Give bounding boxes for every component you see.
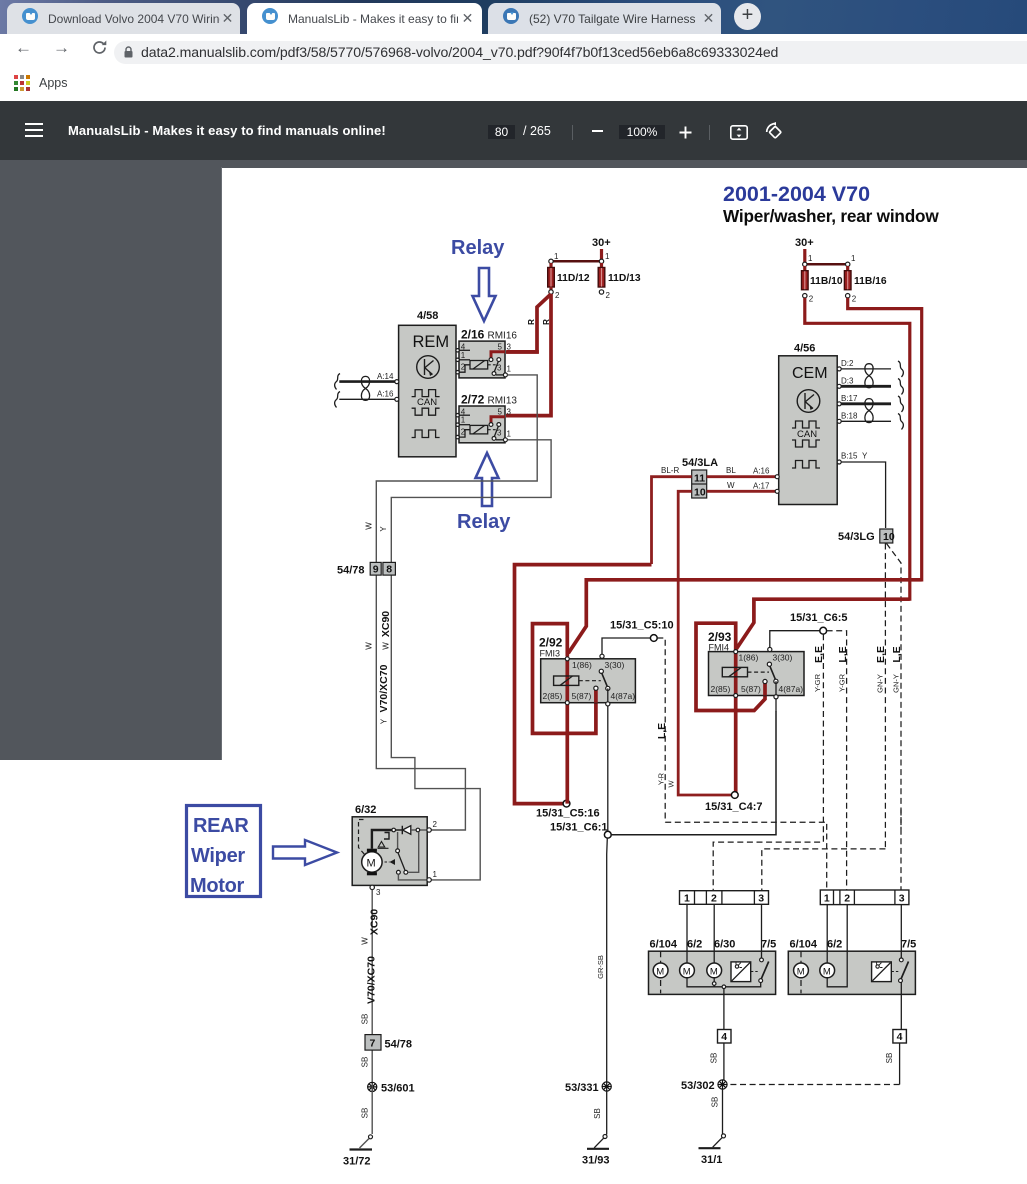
svg-text:54/78: 54/78	[385, 1039, 413, 1051]
dashed E,E wire to left strip pin3	[762, 849, 886, 890]
wire 30+ stub	[803, 249, 806, 262]
2/93 pin 5(87) contact	[763, 679, 767, 683]
dashed wire C6:5 right branch to pin2 (right strip)	[827, 631, 847, 890]
address bar row	[0, 34, 1027, 67]
svg-text:SB: SB	[885, 1053, 894, 1064]
wire switch to connector 4 (right)	[900, 983, 902, 1030]
svg-text:B:15: B:15	[841, 452, 858, 461]
svg-text:GN-Y: GN-Y	[876, 674, 885, 693]
svg-text:L,E: L,E	[656, 723, 668, 739]
2/93 dashed link	[748, 671, 770, 673]
svg-text:Y-R: Y-R	[657, 772, 666, 785]
wire GR-SB: C6:1 down to 53/331	[606, 838, 609, 1084]
svg-text:D:2: D:2	[841, 359, 854, 368]
svg-text:GR-SB: GR-SB	[596, 955, 605, 979]
svg-text:3: 3	[758, 893, 764, 905]
svg-text:6/104: 6/104	[650, 939, 678, 951]
svg-text:1: 1	[461, 351, 466, 360]
svg-text:5(87): 5(87)	[741, 684, 761, 694]
2/93 coil	[722, 667, 747, 676]
pin 2 of 11B/10	[803, 294, 807, 298]
motor M 6/2 (right)	[820, 963, 835, 978]
pin 1 of 11B/10	[803, 262, 807, 266]
dashed C5:10 wire to right strip pin1	[665, 822, 827, 890]
svg-text:31/1: 31/1	[701, 1154, 722, 1166]
svg-text:1: 1	[605, 252, 610, 261]
svg-text:Motor: Motor	[190, 875, 245, 897]
RMI13 coil	[459, 424, 470, 426]
RMI13 switch	[491, 417, 505, 423]
svg-text:2: 2	[809, 295, 814, 304]
svg-text:B:17: B:17	[841, 394, 858, 403]
2/92 pin 1(86)	[565, 657, 569, 661]
switch 7/5 (left)	[761, 904, 763, 958]
svg-text:1: 1	[433, 870, 438, 879]
connector strip 1 2 3 (right)	[820, 890, 909, 905]
svg-text:30+: 30+	[795, 237, 814, 249]
svg-text:SB: SB	[361, 1108, 370, 1119]
svg-text:30+: 30+	[592, 237, 611, 249]
RMI13 pin4 lead	[459, 414, 470, 416]
fuse 11B/10	[803, 266, 806, 271]
svg-text:6/2: 6/2	[687, 939, 702, 951]
junction 15/31_C6:5	[820, 627, 827, 634]
svg-text:10: 10	[694, 487, 706, 499]
svg-text:2(85): 2(85)	[711, 684, 731, 694]
2/93 red inside box	[736, 652, 765, 696]
wire C6:1 to 2/93 4(87a)	[611, 711, 776, 835]
annotation arrow down	[473, 268, 496, 321]
6/32 dashed park lead	[359, 820, 366, 856]
svg-text:BL-R: BL-R	[661, 466, 679, 475]
pin 1 of 6/32	[427, 878, 431, 882]
svg-text:Y-GR: Y-GR	[838, 673, 847, 692]
grey block left	[649, 951, 776, 994]
svg-text:V70/XC70: V70/XC70	[378, 664, 390, 712]
svg-text:11D/13: 11D/13	[608, 273, 641, 284]
svg-text:11D/12: 11D/12	[557, 273, 590, 284]
svg-text:M: M	[823, 966, 831, 977]
svg-text:1(86): 1(86)	[572, 660, 592, 670]
svg-text:A:17: A:17	[753, 482, 770, 491]
2/92 coil	[554, 676, 579, 685]
wire fuse 11D/12 to RMI16 pin3	[507, 350, 537, 352]
svg-text:M: M	[797, 966, 805, 977]
svg-text:3: 3	[497, 364, 502, 373]
svg-text:BL: BL	[726, 466, 736, 475]
svg-text:9: 9	[373, 564, 379, 576]
wire 3(30) to 15/31_C5:10	[602, 638, 651, 654]
new tab button	[734, 3, 761, 30]
RMI13 out 1 lead	[496, 439, 505, 441]
dashed lead below 54/3LG	[887, 544, 902, 830]
svg-text:W: W	[727, 481, 735, 490]
dashed lead through motor 6/104 (right)	[800, 951, 802, 993]
svg-text:3: 3	[497, 428, 502, 437]
svg-text:6/32: 6/32	[355, 804, 376, 816]
annotation arrow up	[476, 453, 499, 506]
2/93 pin 2(85)	[734, 694, 738, 698]
tab 1 inactive	[7, 3, 240, 34]
washer pump symbol 7/5 (left)	[731, 962, 751, 982]
motor M 6/30	[707, 963, 722, 978]
wire pin1 to motor 6/2	[686, 904, 688, 963]
svg-text:53/601: 53/601	[381, 1083, 415, 1095]
svg-text:Wiper/washer, rear window: Wiper/washer, rear window	[723, 206, 939, 226]
pin 2 of 6/32	[427, 828, 431, 832]
wire fuse link 11B/10 to 11B/16 pin1	[805, 263, 848, 266]
wire W pin10 to CEM A:17	[707, 490, 776, 493]
svg-text:R: R	[542, 319, 551, 325]
connector 4 (right)	[893, 1030, 907, 1044]
svg-text:4: 4	[721, 1031, 727, 1043]
svg-text:1: 1	[507, 429, 512, 438]
svg-text:SB: SB	[361, 1014, 370, 1025]
break symbol A:16	[335, 392, 340, 408]
wire 11B/10 pin2 down-right-down (long feed)	[805, 298, 910, 601]
svg-text:4/56: 4/56	[794, 343, 815, 355]
wire 30+ stub	[600, 249, 603, 261]
6/32 park switch	[397, 832, 399, 849]
svg-text:FMI3: FMI3	[540, 649, 561, 659]
dashed lead through motor 6/104	[660, 951, 662, 993]
svg-text:Y: Y	[379, 526, 388, 532]
svg-text:A:16: A:16	[753, 467, 770, 476]
svg-text:4: 4	[897, 1031, 903, 1043]
svg-text:15/31_C6:1: 15/31_C6:1	[550, 822, 608, 834]
svg-text:REAR: REAR	[193, 815, 249, 837]
wire Y B:15 to 54/3LG	[841, 462, 886, 528]
svg-text:REM: REM	[413, 333, 450, 351]
connector strip 1 2 3 (left)	[680, 891, 769, 905]
2/92 pin 4(87a)	[606, 702, 610, 706]
svg-text:31/93: 31/93	[582, 1155, 610, 1167]
svg-text:15/31_C5:16: 15/31_C5:16	[536, 808, 600, 820]
svg-text:R: R	[527, 319, 536, 325]
pin 1 of 11D/13	[599, 259, 603, 263]
RMI16 switch	[491, 352, 505, 358]
svg-text:1: 1	[851, 254, 856, 263]
break symbol D:3	[898, 379, 903, 395]
motor M 6/2	[680, 963, 695, 978]
svg-text:A:16: A:16	[377, 390, 394, 399]
svg-text:5: 5	[498, 407, 503, 416]
2/93 pin 1(86)	[734, 650, 738, 654]
wire pin2 loop to motor 6/2 bottom (right)	[827, 905, 847, 987]
svg-text:GN-Y: GN-Y	[892, 674, 901, 693]
wire 4 to splice 53/302	[723, 1043, 725, 1080]
svg-text:SB: SB	[361, 1057, 370, 1068]
splice 53/601	[368, 1082, 377, 1091]
svg-text:2/92: 2/92	[539, 636, 563, 650]
ground 31/1	[722, 1089, 724, 1134]
svg-text:2001-2004 V70: 2001-2004 V70	[723, 182, 870, 206]
RMI16 dashed link	[488, 364, 496, 366]
twisted pair B:17/B:18	[865, 399, 873, 423]
2/92 pin 5(87) contact	[594, 686, 598, 690]
6/32 motor supply wire	[372, 830, 394, 849]
RMI13 dashed link	[488, 429, 496, 431]
svg-text:W: W	[364, 522, 373, 530]
wire 3(30) to 15/31_C6:5	[770, 631, 820, 648]
svg-text:3(30): 3(30)	[605, 660, 625, 670]
switch 7/5 (right)	[900, 905, 902, 958]
svg-text:1(86): 1(86)	[739, 653, 759, 663]
fuse 11B/16	[846, 266, 849, 271]
svg-text:1: 1	[808, 254, 813, 263]
svg-text:Y: Y	[862, 452, 868, 461]
wire 11B/16 pin2 down-right-down (long feed)	[848, 298, 922, 582]
2/92 dashed link	[579, 680, 601, 682]
svg-text:3: 3	[507, 407, 512, 416]
wire pin2 to motor 6/30	[713, 904, 715, 963]
svg-text:2: 2	[844, 893, 850, 905]
wire R to RMI13 pin3	[506, 294, 551, 416]
break symbol A:14	[335, 374, 340, 390]
svg-text:6/2: 6/2	[827, 939, 842, 951]
2/93 coil wire 1(86) to 15/31_C4:7	[734, 650, 738, 795]
2/93 switch	[768, 647, 772, 651]
6/32 diode to pin2 wire	[411, 829, 427, 831]
2/92 pin 2(85)	[565, 701, 569, 705]
svg-text:Relay: Relay	[451, 237, 505, 259]
svg-text:31/72: 31/72	[343, 1156, 371, 1168]
pin 3 of 6/32	[370, 885, 374, 889]
wire BL pin11 to CEM A:16	[707, 475, 776, 478]
annotation: REAR Wiper Motor box	[187, 806, 261, 897]
svg-text:SB: SB	[711, 1097, 720, 1108]
svg-text:RMI16: RMI16	[488, 331, 518, 342]
pdf viewer toolbar	[0, 101, 1027, 160]
connector 7 (54/78)	[365, 1035, 381, 1051]
svg-text:5: 5	[498, 343, 503, 352]
junction 15/31_C5:10	[650, 635, 657, 642]
svg-text:M: M	[367, 858, 376, 870]
svg-text:XC90: XC90	[369, 909, 381, 935]
motor M 6/104 (right)	[794, 963, 809, 978]
svg-text:V70/XC70: V70/XC70	[366, 956, 378, 1004]
svg-text:53/331: 53/331	[565, 1082, 599, 1094]
svg-text:Y-GR: Y-GR	[813, 673, 822, 692]
svg-text:W: W	[364, 642, 373, 650]
svg-text:1: 1	[461, 416, 466, 425]
svg-text:54/3LG: 54/3LG	[838, 531, 875, 543]
6/32 diode	[396, 826, 403, 834]
svg-text:L,E: L,E	[837, 646, 849, 662]
svg-text:E,E: E,E	[875, 646, 887, 663]
dashed wire C6:5 down branch	[713, 634, 823, 890]
svg-text:2/16: 2/16	[461, 328, 485, 342]
RMI16 left pins 4,1,2	[456, 349, 459, 352]
svg-text:7/5: 7/5	[901, 939, 916, 951]
CEM K symbol	[797, 390, 820, 413]
svg-text:CAN: CAN	[417, 397, 437, 408]
svg-text:11B/16: 11B/16	[854, 276, 887, 287]
svg-text:3: 3	[376, 888, 381, 897]
tab 3 inactive	[488, 3, 721, 34]
svg-text:4(87a): 4(87a)	[779, 684, 804, 694]
svg-text:CEM: CEM	[792, 365, 828, 382]
svg-text:SB: SB	[593, 1108, 602, 1119]
bus wire below motors (left)	[687, 978, 761, 987]
svg-text:2(85): 2(85)	[543, 691, 563, 701]
svg-text:Wiper: Wiper	[191, 845, 245, 867]
wire SB from 6/32 pin3	[371, 890, 373, 1085]
svg-text:3: 3	[899, 893, 905, 905]
svg-text:M: M	[683, 966, 691, 977]
svg-text:2: 2	[852, 295, 857, 304]
RMI16 pin4 lead	[459, 349, 470, 351]
2/92 red inside box	[567, 659, 596, 703]
svg-text:53/302: 53/302	[681, 1080, 715, 1092]
break symbol B:17	[898, 396, 903, 412]
6/32 motor M	[362, 852, 382, 872]
break symbol B:18	[898, 414, 903, 430]
junction 15/31_C6:1	[604, 831, 611, 838]
pin 1 of 11D/12	[549, 259, 553, 263]
2/93 pin 4(87a)	[774, 695, 778, 699]
svg-text:2: 2	[555, 291, 560, 300]
2/93 horseshoe wire 5(87) to 1(86)	[696, 623, 765, 710]
wire 2/92 4(87a) down to C6:1	[607, 706, 609, 831]
wire to connector 4 (left)	[723, 989, 725, 1030]
dashed lead E,E from 54/3LG	[884, 544, 886, 849]
browser window frame	[0, 0, 1027, 34]
svg-text:W: W	[667, 780, 676, 788]
wire 4 down (right)	[899, 1043, 901, 1085]
wire fuse link 11D/12 to 11D/13 pin1	[551, 260, 601, 263]
annotation arrow right	[273, 840, 337, 865]
svg-text:8: 8	[386, 564, 392, 576]
dashed wire from C5:10 down	[657, 638, 665, 822]
6/32 right contact to pin2 net	[408, 832, 419, 873]
svg-text:6/104: 6/104	[790, 939, 818, 951]
tab 2 active	[247, 3, 482, 34]
splice 53/302	[718, 1080, 727, 1089]
svg-text:W: W	[361, 937, 370, 945]
svg-text:RMI13: RMI13	[488, 396, 518, 407]
fuse 11D/12	[549, 263, 552, 268]
ground 31/72	[371, 1084, 373, 1134]
svg-text:XC90: XC90	[380, 611, 392, 637]
washer pump symbol 7/5 (right)	[872, 962, 892, 982]
svg-text:Y: Y	[380, 718, 389, 724]
grey block right	[788, 951, 915, 994]
svg-text:7/5: 7/5	[761, 939, 776, 951]
svg-text:54/78: 54/78	[337, 565, 365, 577]
svg-text:7: 7	[370, 1038, 376, 1050]
svg-text:D:3: D:3	[841, 377, 854, 386]
svg-text:A:14: A:14	[377, 372, 394, 381]
svg-text:1: 1	[507, 365, 512, 374]
svg-text:2/72: 2/72	[461, 393, 485, 407]
svg-text:2: 2	[711, 893, 717, 905]
CEM CAN label + waves	[792, 421, 820, 428]
RMI16 coil	[459, 359, 470, 361]
svg-text:4(87a): 4(87a)	[611, 691, 636, 701]
connector 4 (left)	[718, 1030, 732, 1044]
RMI16 out 1 lead	[496, 374, 505, 376]
svg-text:5(87): 5(87)	[572, 691, 592, 701]
pin 2 of 11B/16	[846, 294, 850, 298]
svg-text:6/30: 6/30	[714, 939, 735, 951]
svg-text:54/3LA: 54/3LA	[682, 457, 718, 469]
6/32 thermal switch	[384, 833, 389, 840]
pin 2 of 11D/12	[549, 287, 552, 290]
svg-text:M: M	[710, 966, 718, 977]
junction 15/31_C5:16	[563, 800, 570, 807]
pin 1 of 11B/16	[846, 262, 850, 266]
svg-text:M: M	[656, 966, 664, 977]
dashed L,E wire to right strip pin3	[900, 810, 902, 891]
wire R to RMI16 pin3	[506, 294, 551, 352]
svg-text:1: 1	[684, 893, 690, 905]
svg-text:11B/10: 11B/10	[810, 276, 843, 287]
svg-text:11: 11	[694, 473, 705, 485]
6/32 cam arrow	[385, 861, 390, 863]
junction 15/31_C4:7	[731, 792, 738, 799]
wire A:16 twisted pair	[339, 398, 397, 400]
svg-text:1: 1	[824, 893, 830, 905]
bookmarks bar	[0, 67, 1027, 101]
2/92 horseshoe wire 5(87) to 1(86)	[533, 624, 596, 734]
wire pin1 to motor 6/2 (right)	[826, 905, 828, 963]
wire A:14 twisted pair	[339, 380, 397, 383]
svg-text:2: 2	[606, 291, 611, 300]
pin 2 of 11D/13	[599, 290, 603, 294]
svg-text:E,E: E,E	[813, 646, 825, 663]
motor M 6/104	[653, 963, 668, 978]
2/92 coil wire 1(86) to 15/31_C5:16	[565, 658, 569, 804]
svg-text:SB: SB	[710, 1053, 719, 1064]
svg-text:4/58: 4/58	[417, 310, 438, 322]
REM K symbol	[417, 356, 440, 379]
svg-text:15/31_C4:7: 15/31_C4:7	[705, 801, 763, 813]
svg-text:3(30): 3(30)	[773, 653, 793, 663]
svg-text:15/31_C5:10: 15/31_C5:10	[610, 620, 674, 632]
twisted pair D:2/D:3	[865, 364, 873, 388]
twisted pair symbol	[361, 376, 369, 400]
svg-text:CAN: CAN	[797, 429, 817, 440]
ground 31/93	[606, 1091, 608, 1135]
svg-text:L,E: L,E	[891, 646, 903, 662]
dashed wire right 4 to splice 53/302	[729, 1084, 900, 1086]
RMI13 left pins 4,1,2	[456, 414, 459, 417]
2/92 switch	[600, 654, 604, 658]
svg-text:W: W	[382, 642, 391, 650]
fuse 11D/13	[600, 263, 603, 268]
svg-text:B:18: B:18	[841, 412, 858, 421]
svg-text:Relay: Relay	[457, 511, 511, 533]
splice 53/331	[602, 1082, 611, 1091]
svg-text:10: 10	[883, 531, 895, 543]
wire BL-R from pin11 left then down	[652, 477, 692, 564]
svg-text:15/31_C6:5: 15/31_C6:5	[790, 612, 848, 624]
REM CAN label + waves	[412, 390, 440, 397]
svg-text:1: 1	[554, 252, 559, 261]
wire from pin10 left then down (to C4:7)	[678, 491, 731, 795]
6/32 switch-to-pin1 wire	[398, 874, 427, 880]
svg-text:2: 2	[433, 820, 438, 829]
break symbol D:2	[898, 361, 903, 377]
